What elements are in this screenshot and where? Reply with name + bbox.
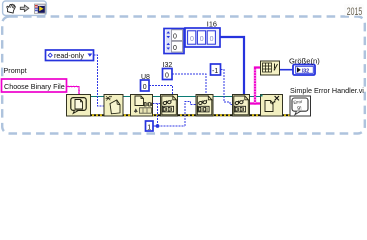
svg-text:0: 0 — [173, 34, 177, 41]
svg-text:Choose Binary File: Choose Binary File — [4, 82, 65, 91]
svg-text:0: 0 — [190, 36, 194, 43]
svg-text:0: 0 — [143, 84, 147, 91]
svg-text:-1: -1 — [212, 68, 218, 75]
svg-text:2015: 2015 — [347, 6, 363, 18]
svg-text:0: 0 — [210, 36, 214, 43]
svg-text:1: 1 — [147, 124, 151, 131]
svg-text:Prompt: Prompt — [4, 66, 27, 75]
svg-text:Größe(n): Größe(n) — [289, 57, 320, 66]
svg-text:I32: I32 — [302, 68, 309, 74]
svg-text:Simple Error Handler.vi: Simple Error Handler.vi — [290, 86, 364, 95]
svg-text:0: 0 — [200, 36, 204, 43]
svg-text:read-only: read-only — [54, 51, 84, 60]
svg-text:0: 0 — [165, 72, 169, 79]
svg-text:0: 0 — [173, 45, 177, 52]
